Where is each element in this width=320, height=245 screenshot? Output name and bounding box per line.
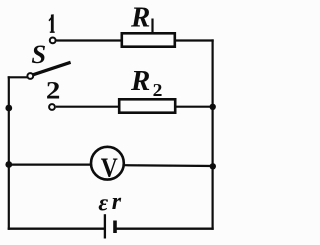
svg-text:S: S xyxy=(31,39,46,69)
svg-text:V: V xyxy=(101,152,118,183)
svg-text:ε: ε xyxy=(98,190,108,216)
wire voltmeter to right rail xyxy=(124,164,214,167)
terminal 2 xyxy=(49,104,55,110)
wire left rail to voltmeter xyxy=(9,164,91,166)
wire bottom left (to battery) xyxy=(8,227,104,229)
wire R2 to right rail xyxy=(177,106,214,108)
voltmeter V xyxy=(91,147,124,180)
node left rail voltmeter junction xyxy=(5,161,12,168)
wire bottom right (from battery) xyxy=(115,227,214,229)
node left rail row2 junction xyxy=(5,105,12,112)
svg-text:2: 2 xyxy=(153,81,163,101)
switch S pivot terminal xyxy=(27,73,33,79)
svg-text:r: r xyxy=(112,189,122,215)
wire R1 to right rail xyxy=(176,39,214,41)
wire terminal2 to R2 xyxy=(56,106,119,108)
battery cell: long plate xyxy=(104,214,106,238)
node right rail R2 junction xyxy=(210,104,216,110)
label 1 xyxy=(49,14,55,33)
svg-text:R: R xyxy=(130,2,150,34)
resistor R1 xyxy=(122,33,175,46)
terminal 1 xyxy=(50,38,56,44)
wire terminal1 to R1 xyxy=(57,39,122,41)
resistor R2 xyxy=(119,99,175,112)
wire right rail xyxy=(212,39,214,229)
battery cell: short plate xyxy=(113,221,117,234)
wire switch pivot feed xyxy=(8,76,28,78)
svg-text:R: R xyxy=(130,65,150,97)
wire left rail xyxy=(8,76,10,230)
switch S blade xyxy=(33,62,71,75)
svg-text:2: 2 xyxy=(46,76,60,104)
node right rail voltmeter junction xyxy=(210,163,216,169)
